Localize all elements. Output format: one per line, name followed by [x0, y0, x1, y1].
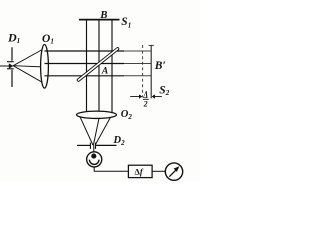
wire box to meter — [152, 170, 165, 172]
svg-text:Δf: Δf — [135, 167, 144, 177]
mirror S1 — [79, 19, 120, 21]
mirror S2 — [149, 45, 154, 98]
photodetector — [87, 152, 102, 167]
vertical ray right — [111, 20, 113, 113]
svg-text:B: B — [99, 9, 107, 21]
ray fan from slit to lens O1 — [13, 49, 45, 84]
dimension arrow right — [152, 94, 162, 98]
wire detector to box — [94, 167, 128, 171]
beam splitter plate A — [77, 47, 120, 82]
vertical ray left — [86, 20, 88, 113]
svg-text:B′: B′ — [154, 60, 166, 72]
svg-text:A: A — [101, 67, 108, 77]
incoming light arrow — [0, 63, 13, 68]
dashed image plane B' — [142, 45, 144, 97]
horizontal ray top — [45, 50, 125, 52]
lens O2 — [77, 111, 117, 118]
svg-text:2: 2 — [143, 99, 148, 108]
meter — [165, 163, 182, 180]
converging rays below lens O2 — [80, 117, 111, 145]
slit D1 — [7, 47, 14, 87]
vertical ray middle — [98, 20, 100, 113]
dimension arrow left — [130, 94, 142, 98]
fraction delta/2 — [143, 89, 149, 108]
filter box — [128, 165, 152, 177]
horizontal ray middle — [45, 63, 125, 65]
horizontal ray bottom — [45, 75, 125, 77]
slit D2 — [77, 143, 117, 149]
lens O1 — [41, 45, 49, 89]
ray slit to detector — [93, 145, 95, 152]
